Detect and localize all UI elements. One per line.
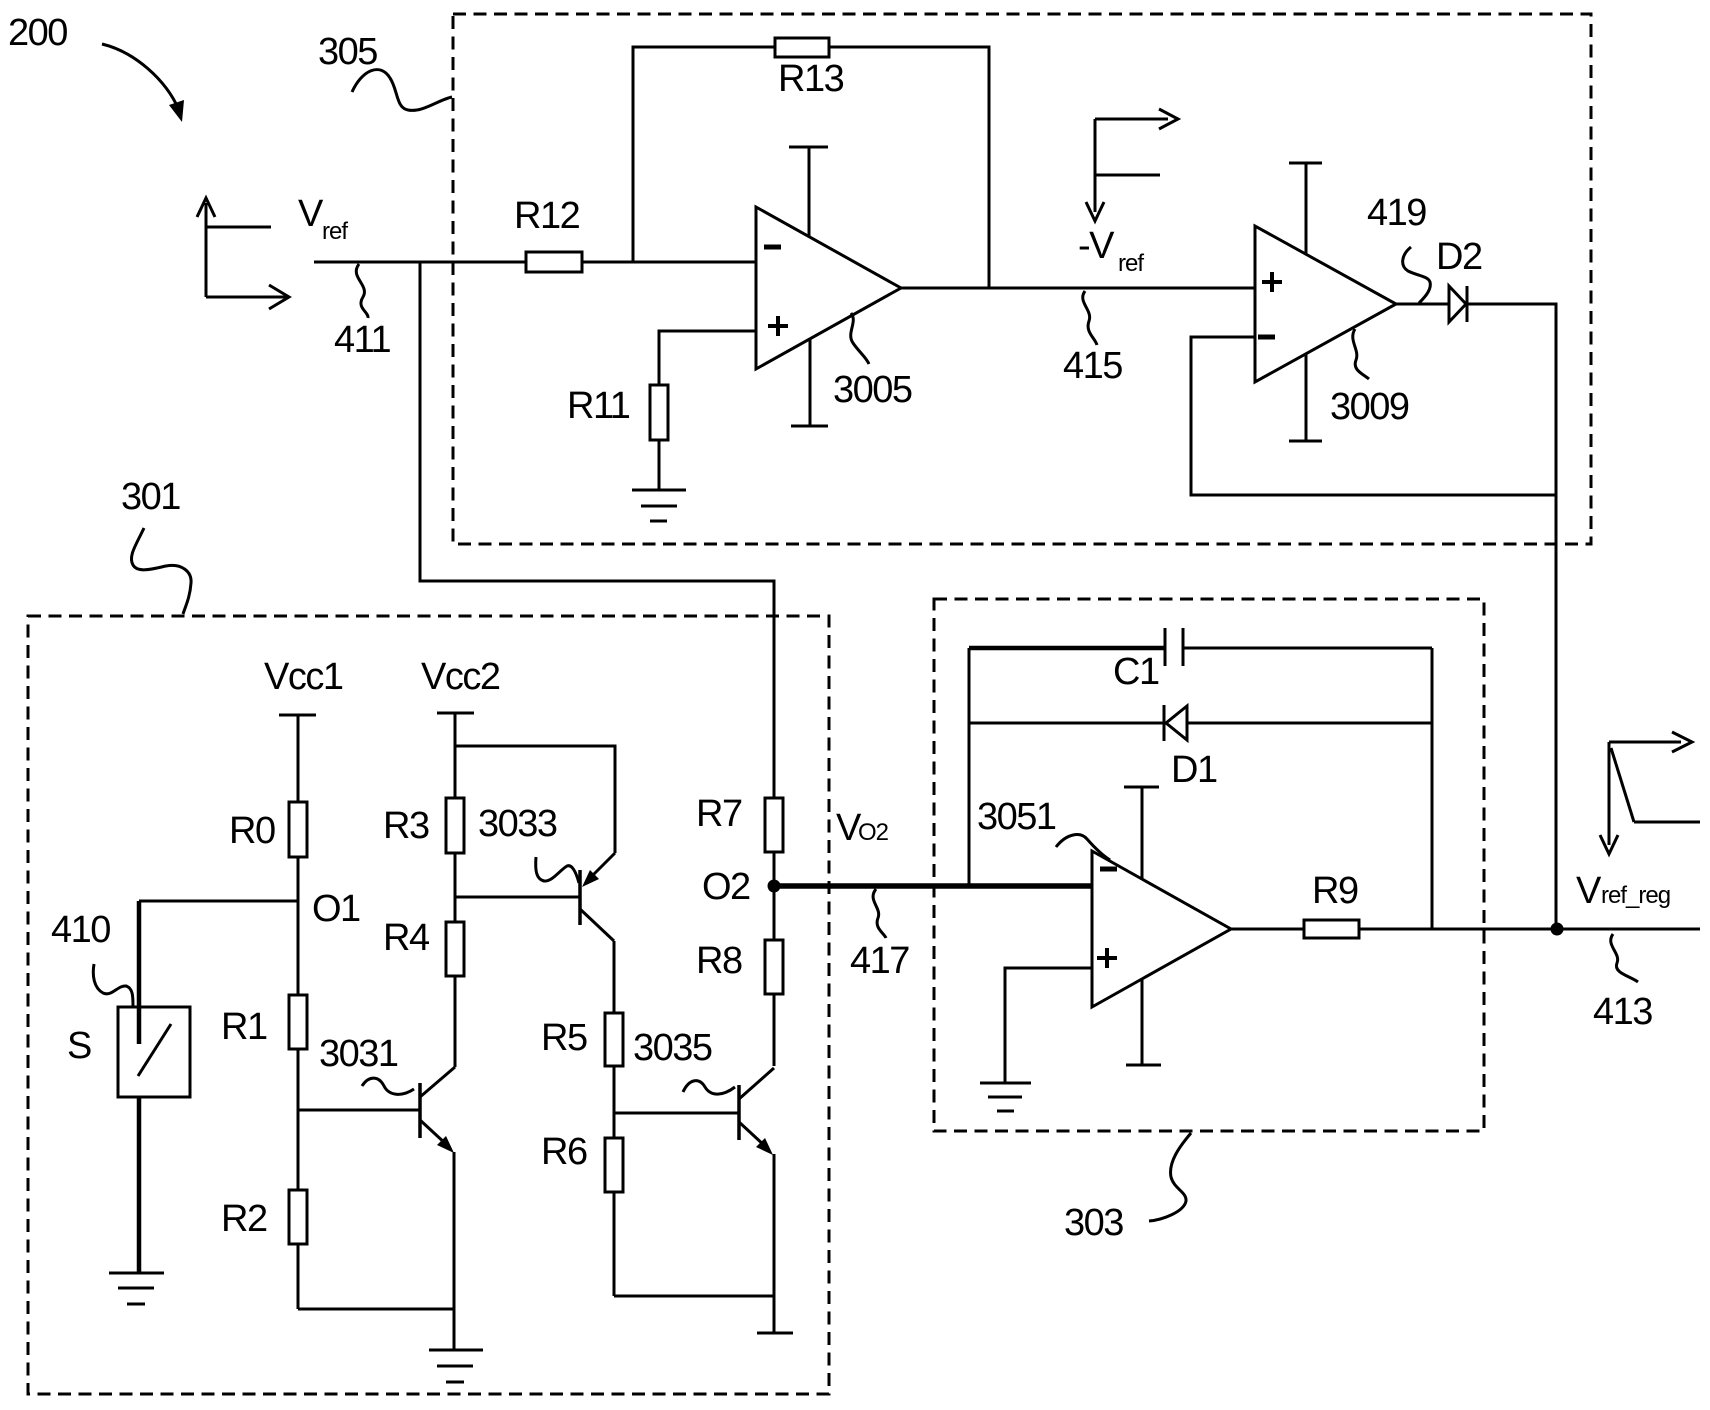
svg-text:R13: R13 bbox=[778, 58, 844, 100]
leader squiggle 415 bbox=[1083, 291, 1097, 345]
wire 303 feedback left vertical bbox=[968, 648, 971, 886]
power rail bottom 3005 bbox=[791, 339, 828, 426]
svg-text:3033: 3033 bbox=[478, 803, 557, 845]
minus sign 3051 bbox=[1100, 867, 1117, 872]
node VO2 label bbox=[836, 807, 889, 849]
leader squiggle 3005 bbox=[851, 313, 869, 364]
wire 3009 feedback loop bbox=[1191, 337, 1556, 495]
wire feedback to R13 bbox=[633, 47, 989, 288]
leader squiggle 419 bbox=[1403, 247, 1431, 303]
leader squiggle 413 bbox=[1611, 934, 1638, 982]
leader squiggle 3033 bbox=[536, 857, 579, 883]
plus sign 3005 bbox=[768, 316, 788, 336]
svg-text:O1: O1 bbox=[312, 888, 360, 930]
ground under 3035 bbox=[757, 1332, 793, 1335]
power rail top 3005 bbox=[789, 147, 828, 237]
svg-text:3005: 3005 bbox=[833, 369, 912, 411]
leader squiggle 410 bbox=[93, 964, 133, 1006]
leader squiggle 3051 bbox=[1056, 835, 1110, 860]
diode D2 bbox=[1449, 286, 1467, 322]
wire R2 bottom to emitter column bbox=[298, 1308, 454, 1311]
wire Vcc2 branch to 3033 emitter bbox=[455, 746, 615, 853]
wire 303 feedback right vertical bbox=[1431, 648, 1434, 929]
svg-text:3051: 3051 bbox=[977, 796, 1056, 838]
svg-text:ref_reg: ref_reg bbox=[1601, 882, 1670, 909]
resistor R0 bbox=[289, 802, 307, 857]
dashed box 305 bbox=[453, 14, 1591, 544]
resistor R5 bbox=[605, 1013, 623, 1066]
wire noninverting input 3005 bbox=[659, 331, 756, 385]
ground under 3051 input bbox=[980, 1083, 1031, 1111]
leader squiggle 305 bbox=[352, 70, 452, 111]
svg-text:410: 410 bbox=[51, 909, 110, 951]
wire 3051 noninverting input to ground bbox=[1005, 968, 1092, 1083]
transistor 3033 bbox=[455, 853, 615, 941]
minus sign 3005 bbox=[764, 245, 781, 250]
wire 3009 output bbox=[1396, 303, 1448, 306]
wire switch to ground bbox=[137, 1097, 142, 1273]
ground under 3031 bbox=[429, 1350, 483, 1382]
svg-text:R9: R9 bbox=[1312, 870, 1358, 912]
resistor R2 bbox=[289, 1190, 307, 1244]
wire 3031 emitter to ground bbox=[453, 1152, 456, 1350]
svg-text:D1: D1 bbox=[1171, 749, 1217, 791]
svg-text:R1: R1 bbox=[221, 1006, 267, 1048]
dashed box 303 bbox=[934, 599, 1484, 1131]
svg-text:Vcc1: Vcc1 bbox=[264, 656, 343, 698]
leader squiggle 3031 bbox=[362, 1078, 414, 1094]
resistor R4 bbox=[446, 922, 464, 976]
svg-text:R7: R7 bbox=[696, 793, 742, 835]
svg-text:V: V bbox=[298, 193, 324, 235]
svg-text:O2: O2 bbox=[702, 866, 750, 908]
power rail top 3009 bbox=[1289, 163, 1322, 254]
power rail bottom 3051 bbox=[1126, 979, 1161, 1065]
svg-text:R2: R2 bbox=[221, 1198, 267, 1240]
wire branch from Vref down to R7 column bbox=[420, 262, 774, 798]
svg-text:R11: R11 bbox=[567, 385, 630, 427]
dashed box 301 bbox=[28, 616, 829, 1394]
wire 3035 emitter to ground bbox=[773, 1154, 776, 1333]
svg-text:303: 303 bbox=[1064, 1202, 1123, 1244]
power rail bottom 3009 bbox=[1289, 354, 1322, 441]
svg-text:3031: 3031 bbox=[319, 1033, 398, 1075]
transistor 3035 bbox=[614, 1068, 774, 1155]
plus sign 3009 bbox=[1262, 272, 1282, 292]
power rail top 3051 bbox=[1124, 787, 1159, 879]
wire 3033 collector column bbox=[613, 941, 616, 1296]
svg-text:200: 200 bbox=[8, 12, 67, 54]
Vref step waveform symbol bbox=[197, 198, 289, 309]
svg-text:411: 411 bbox=[334, 319, 390, 361]
svg-text:419: 419 bbox=[1367, 192, 1426, 234]
wire O2 to 3051 inverting input bbox=[774, 883, 1092, 889]
svg-text:Vcc2: Vcc2 bbox=[421, 656, 500, 698]
op-amp 3009 bbox=[1255, 226, 1396, 382]
resistor R7 bbox=[765, 798, 783, 852]
op-amp 3005 bbox=[756, 207, 901, 369]
wire D1 row left bbox=[969, 722, 1164, 725]
wire C1 top left bbox=[969, 646, 1165, 651]
diode D1 bbox=[1164, 705, 1187, 741]
resistor R3 bbox=[446, 798, 464, 853]
svg-text:R8: R8 bbox=[696, 940, 742, 982]
resistor R9 bbox=[1304, 920, 1359, 938]
ground under R11 bbox=[632, 490, 686, 521]
node Vref_reg junction dot bbox=[1551, 923, 1564, 936]
wire Vref input bbox=[314, 261, 756, 264]
node Vref_reg label bbox=[1576, 870, 1670, 912]
svg-text:3035: 3035 bbox=[633, 1027, 712, 1069]
svg-text:305: 305 bbox=[318, 31, 377, 73]
svg-text:D2: D2 bbox=[1436, 236, 1482, 278]
node -Vref label bbox=[1078, 225, 1144, 277]
leader squiggle 417 bbox=[873, 889, 886, 938]
wire 3005 output to 3009 bbox=[901, 287, 1255, 290]
Vref_reg decay waveform symbol bbox=[1600, 732, 1700, 854]
transistor 3031 bbox=[298, 1067, 455, 1153]
resistor R11 bbox=[650, 385, 668, 440]
svg-text:413: 413 bbox=[1593, 991, 1652, 1033]
wire D2 to Vref_reg node bbox=[1468, 304, 1556, 929]
svg-text:R3: R3 bbox=[383, 805, 429, 847]
wire R7 R8 column bbox=[773, 798, 776, 1066]
svg-text:301: 301 bbox=[121, 476, 180, 518]
svg-text:ref: ref bbox=[1118, 250, 1144, 277]
leader squiggle 411 bbox=[356, 264, 368, 318]
resistor R6 bbox=[605, 1138, 623, 1192]
capacitor C1 bbox=[1165, 628, 1183, 666]
svg-text:R6: R6 bbox=[541, 1131, 587, 1173]
wire D1 row right bbox=[1187, 722, 1432, 725]
wire 3051 output Vref_reg bbox=[1231, 928, 1700, 931]
resistor R8 bbox=[765, 940, 783, 994]
ground under switch bbox=[109, 1273, 164, 1304]
wire Vcc1 column bbox=[297, 715, 300, 1309]
node Vref label bbox=[298, 193, 348, 245]
svg-text:415: 415 bbox=[1063, 345, 1122, 387]
wire R6 bottom to 3035 emitter bbox=[614, 1295, 774, 1298]
leader squiggle 3009 bbox=[1353, 329, 1369, 379]
resistor R12 bbox=[526, 252, 582, 272]
svg-text:R12: R12 bbox=[514, 195, 580, 237]
op-amp 3051 bbox=[1092, 851, 1231, 1007]
wire Vcc2 column bbox=[454, 713, 457, 1067]
resistor R13 bbox=[775, 38, 829, 57]
wire O1 to switch bbox=[139, 901, 298, 1007]
svg-text:V: V bbox=[1576, 870, 1602, 912]
resistor R1 bbox=[289, 995, 307, 1049]
supply Vcc2 bbox=[421, 656, 500, 713]
svg-text:R5: R5 bbox=[541, 1017, 587, 1059]
node O2 junction dot bbox=[768, 880, 781, 893]
plus sign 3051 bbox=[1097, 948, 1117, 968]
svg-text:ref: ref bbox=[322, 218, 348, 245]
svg-text:-V: -V bbox=[1078, 225, 1115, 267]
svg-text:R4: R4 bbox=[383, 917, 430, 959]
wire C1 top right bbox=[1183, 647, 1432, 650]
leader squiggle 303 bbox=[1149, 1133, 1191, 1221]
wire R11 to ground bbox=[658, 440, 661, 490]
svg-text:417: 417 bbox=[850, 940, 909, 982]
svg-text:C1: C1 bbox=[1113, 651, 1159, 693]
switch S bbox=[118, 1007, 190, 1097]
leader squiggle 301 bbox=[131, 528, 191, 614]
svg-text:R0: R0 bbox=[229, 810, 275, 852]
supply Vcc1 bbox=[264, 656, 343, 715]
leader squiggle 3035 bbox=[683, 1081, 735, 1094]
minus sign 3009 bbox=[1258, 335, 1275, 340]
negative Vref step waveform symbol bbox=[1086, 109, 1178, 221]
svg-text:3009: 3009 bbox=[1330, 386, 1409, 428]
leader arrow from 200 bbox=[102, 44, 184, 122]
svg-text:O2: O2 bbox=[858, 819, 889, 846]
svg-text:S: S bbox=[67, 1025, 91, 1067]
